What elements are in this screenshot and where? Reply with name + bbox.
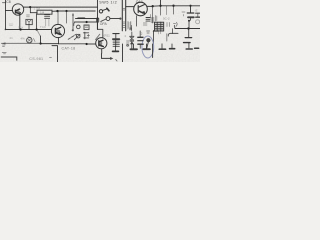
svg-text:C8: C8 bbox=[6, 0, 10, 4]
svg-text:SW5 1/2: SW5 1/2 bbox=[99, 1, 117, 5]
dark blob junction bbox=[96, 18, 99, 23]
node dot bbox=[29, 6, 31, 8]
wire collector lead Q2 bbox=[147, 5, 152, 7]
blue pen circle bbox=[142, 36, 154, 58]
wire long vertical x97.5 bbox=[97, 0, 99, 29]
svg-text:(R11: (R11 bbox=[104, 33, 111, 37]
node dot bbox=[36, 28, 38, 30]
node dot bbox=[65, 10, 67, 12]
node dot bbox=[20, 28, 22, 30]
cap x115.5 bottom bbox=[115, 47, 117, 51]
wire bottom rail y43.7 bbox=[2, 42, 41, 44]
capacitor C below bbox=[185, 37, 191, 39]
electrolytic cap mid bbox=[84, 32, 86, 39]
node dot bbox=[56, 10, 58, 12]
capacitor right edge col bbox=[196, 12, 200, 14]
component col x115.5 stack bbox=[113, 33, 119, 35]
svg-text:1.1k: 1.1k bbox=[18, 25, 24, 29]
diode D1 bbox=[131, 32, 133, 36]
svg-text:4%: 4% bbox=[21, 37, 26, 41]
Gamma curve bbox=[168, 33, 178, 36]
transformer T1 box bbox=[155, 22, 164, 31]
wire x152.5 down bbox=[152, 6, 154, 17]
wire x36.5 bbox=[36, 14, 38, 30]
trimmer circle bbox=[77, 25, 81, 29]
dark vertical inside circle bbox=[152, 44, 154, 58]
ground bar right bbox=[195, 47, 199, 49]
component box with Y bbox=[26, 19, 32, 24]
capacitor/gnd x172 bbox=[171, 44, 173, 48]
switch arm bbox=[103, 9, 108, 11]
transistor Q2 bbox=[134, 2, 148, 16]
capacitor x140 bbox=[139, 31, 141, 37]
wire mid right rail y28.5 bbox=[175, 28, 200, 30]
wire emitter Q4 bbox=[58, 38, 60, 44]
wire y22 bbox=[75, 21, 98, 23]
wire x160.5 up bbox=[160, 0, 162, 6]
switch SW5 contact circle bbox=[99, 10, 102, 13]
node blob left bbox=[5, 29, 7, 31]
capacitor col x190.5 bbox=[190, 6, 192, 13]
wire base lead Q1 bbox=[6, 10, 13, 12]
wire x160.5 down bbox=[160, 6, 162, 15]
small box component bbox=[84, 25, 89, 30]
marks 2 bbox=[127, 41, 130, 45]
wire x173.5 down bbox=[173, 6, 175, 14]
trim arrow vertical x73 bbox=[72, 14, 74, 31]
transistor Q1 bbox=[12, 4, 23, 15]
svg-text:CAT-18: CAT-18 bbox=[62, 47, 76, 51]
wire bottom-left rail y29.5 bbox=[6, 29, 52, 31]
marks bbox=[182, 12, 185, 16]
wire x166.5 down bbox=[166, 6, 168, 15]
wire emitter Q3 down + arrow bbox=[102, 49, 111, 59]
small circle component bbox=[27, 38, 32, 43]
svg-text:E: E bbox=[196, 9, 198, 13]
node dot bbox=[96, 17, 98, 19]
cluster marks below Q2 bbox=[131, 26, 133, 31]
wire drop to R1 bbox=[29, 7, 31, 13]
wire y18.5 bbox=[76, 18, 98, 20]
bars component x47 bbox=[45, 15, 50, 19]
tick mark bbox=[3, 2, 6, 4]
svg-text:1M: 1M bbox=[40, 11, 45, 15]
resistor bars x129 bbox=[128, 22, 131, 30]
marks small bbox=[167, 23, 170, 27]
wire left vertical bbox=[5, 0, 7, 29]
node dot bbox=[40, 42, 42, 44]
svg-text:1.7M: 1.7M bbox=[34, 7, 41, 11]
wire bottom-left corner bbox=[1, 57, 17, 60]
wire base lead Q2 bbox=[126, 6, 134, 8]
wires verticals mid-right bbox=[153, 31, 155, 45]
bead component in pen circle bbox=[146, 38, 150, 42]
wire x40.5 vertical bbox=[40, 36, 42, 43]
wire y11 line bbox=[52, 10, 95, 12]
wire top right rail bbox=[153, 5, 201, 7]
capacitor/gnd x146.5 bbox=[146, 44, 148, 48]
J mark bbox=[174, 22, 178, 26]
resistor R1 bbox=[30, 12, 37, 14]
switch arm 2 bbox=[106, 17, 110, 21]
node dot bbox=[189, 5, 191, 7]
wire emitter Q1 down bbox=[19, 15, 21, 29]
node dot bbox=[159, 5, 161, 7]
coil bars cluster bbox=[146, 18, 150, 22]
wire collector rail y7 bbox=[24, 6, 98, 8]
svg-text:TCA: TCA bbox=[40, 25, 46, 29]
wire jog to Q3 bbox=[97, 23, 102, 38]
capacitor/gnd x133.5 bbox=[133, 44, 135, 48]
wire x57.5 down bbox=[52, 46, 58, 62]
wire x122.5 bottom bbox=[122, 44, 124, 62]
marks bottom left bbox=[3, 45, 6, 47]
verticals from dots bbox=[57, 11, 59, 24]
small o bbox=[127, 45, 129, 47]
wire emitter Q2 down bbox=[136, 16, 138, 26]
svg-text:21: 21 bbox=[10, 36, 14, 40]
faint marks bbox=[9, 24, 13, 26]
svg-text:5C-2: 5C-2 bbox=[163, 17, 170, 21]
svg-text:2: 2 bbox=[141, 32, 143, 36]
node dot bbox=[187, 27, 189, 29]
node dot bbox=[86, 21, 88, 23]
node dot bbox=[86, 43, 88, 45]
svg-text:OPA: OPA bbox=[100, 22, 108, 26]
wire vertical pair bbox=[122, 0, 125, 31]
transistor Q4 bbox=[51, 24, 64, 37]
node dot bbox=[172, 5, 174, 7]
wire down from dot bbox=[188, 29, 190, 37]
small marks left of coil bbox=[151, 15, 157, 22]
capacitor/gnd x162 bbox=[161, 44, 163, 49]
switch linkage dashes bbox=[68, 34, 76, 39]
svg-text:CS-981: CS-981 bbox=[29, 57, 43, 61]
svg-text:Q11: Q11 bbox=[136, 0, 144, 4]
node dot bbox=[152, 5, 154, 7]
transistor Q3 (bottom mid) bbox=[96, 38, 107, 49]
marks above box bbox=[27, 15, 30, 17]
